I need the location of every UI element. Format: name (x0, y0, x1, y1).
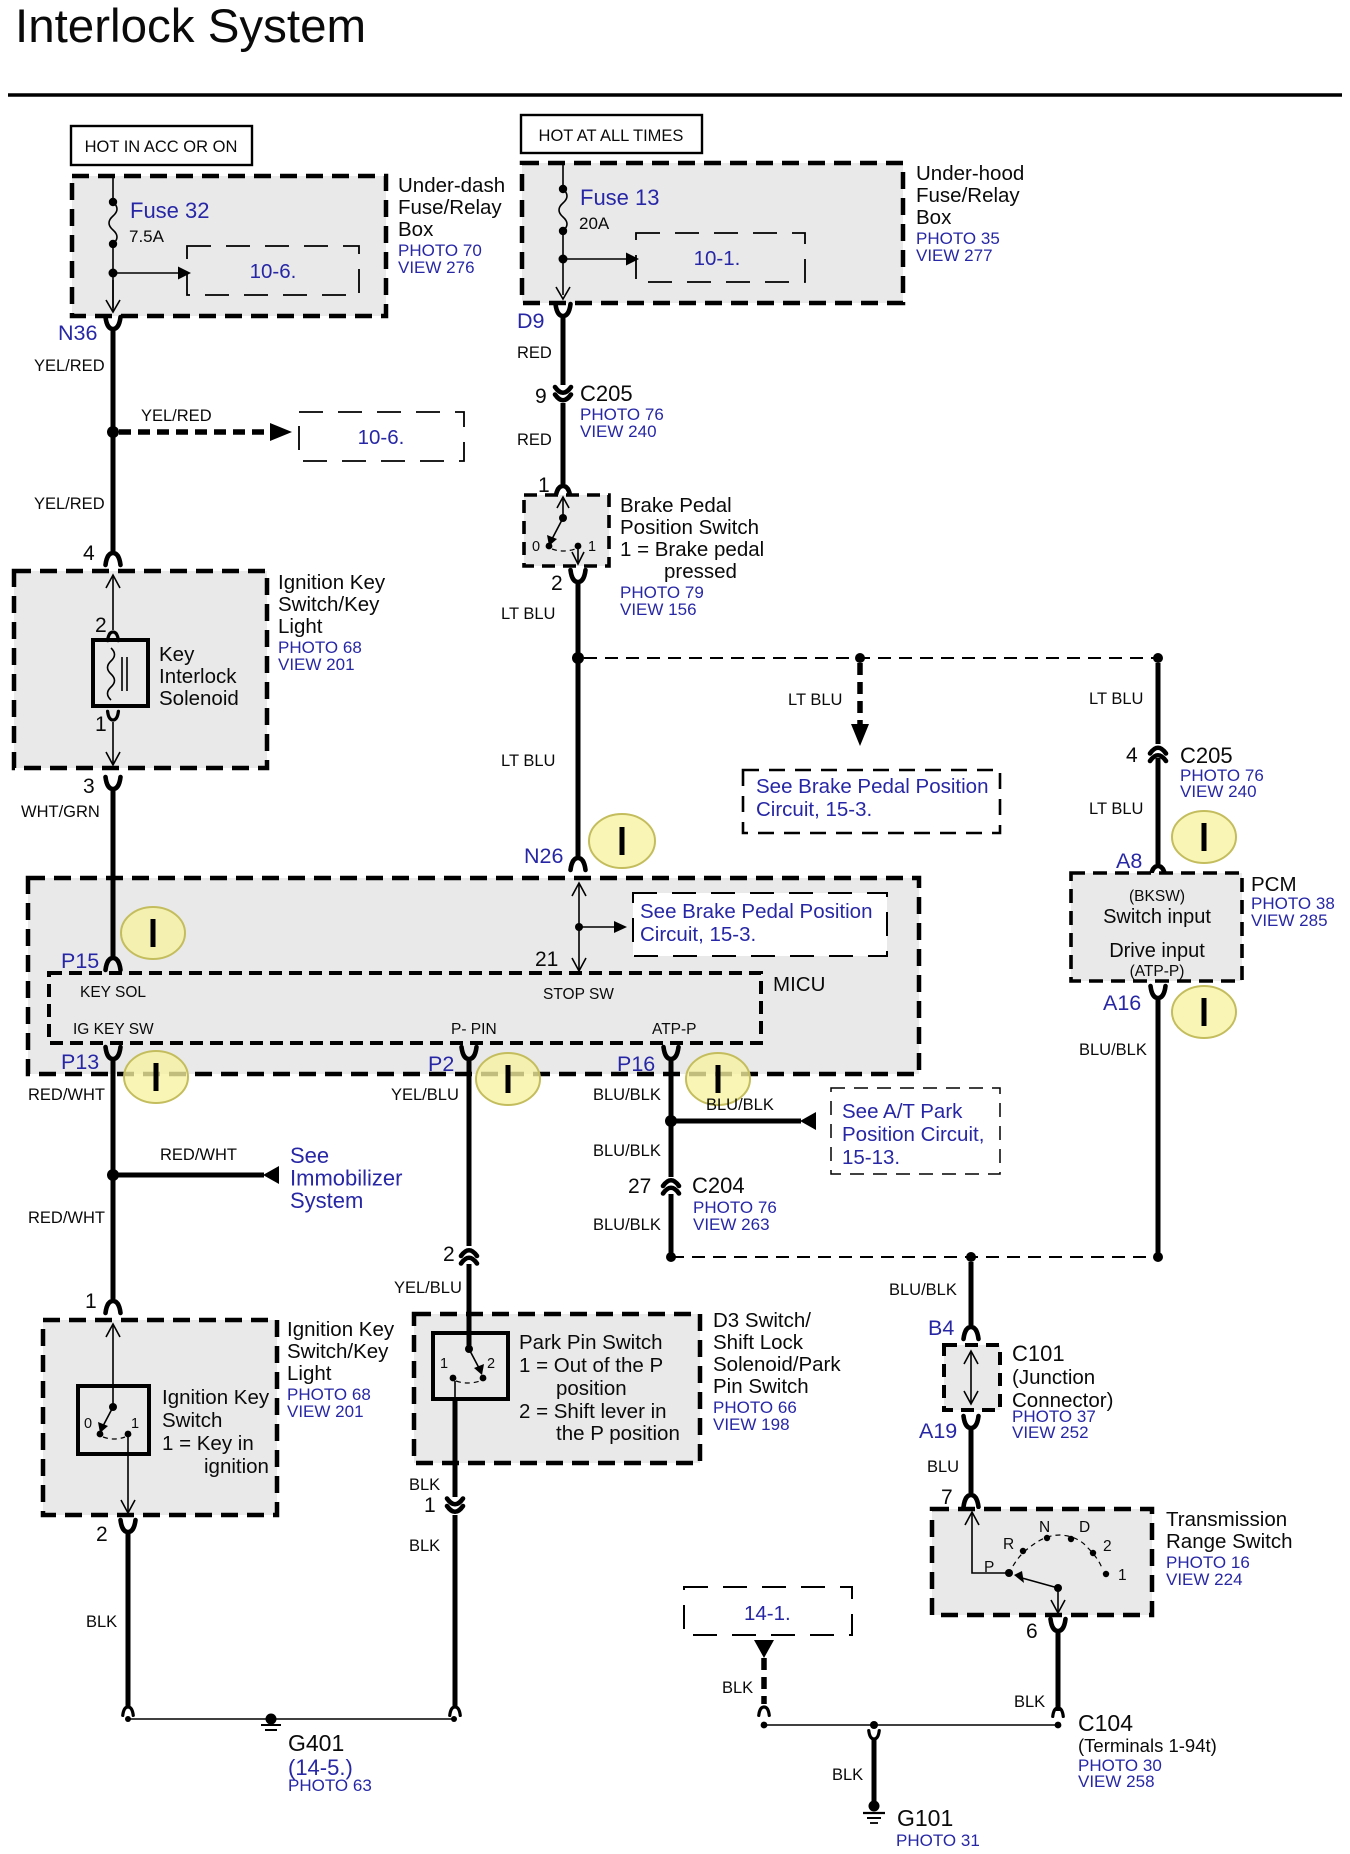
svg-text:1: 1 (588, 539, 596, 555)
svg-text:3: 3 (83, 775, 95, 798)
svg-text:IG KEY SW: IG KEY SW (73, 1021, 154, 1038)
svg-text:Key: Key (159, 643, 195, 666)
highlight oval at A8 (1172, 811, 1236, 863)
svg-text:RED/WHT: RED/WHT (160, 1146, 237, 1164)
junction to immobilizer (107, 1169, 119, 1181)
svg-text:STOP SW: STOP SW (543, 986, 614, 1003)
svg-text:RED/WHT: RED/WHT (28, 1086, 105, 1104)
TRS entry arrow and feed to P (972, 1513, 1009, 1573)
svg-text:Fuse/Relay: Fuse/Relay (398, 196, 502, 219)
wire to immobilizer system (118, 1173, 264, 1178)
svg-text:LT BLU: LT BLU (501, 752, 555, 770)
svg-text:2: 2 (551, 572, 563, 595)
svg-text:Interlock: Interlock (159, 665, 237, 688)
in-line connector C205 pin 9 (double chevron down) (555, 387, 571, 393)
connector fork at N36 (106, 317, 121, 329)
under-dash fuse/relay box (dashed enclosure) (72, 176, 386, 316)
park switch common node (465, 1345, 473, 1353)
svg-text:N26: N26 (524, 844, 563, 868)
svg-text:Light: Light (287, 1362, 332, 1385)
PCM enclosure (1071, 873, 1242, 981)
reference box 10-6 (inside fuse box) (187, 246, 359, 295)
svg-text:Under-dash: Under-dash (398, 174, 505, 197)
pin 4 entry arrow inside box (112, 576, 114, 630)
svg-text:P15: P15 (61, 949, 99, 973)
TRS contacts P R N D 2 1 (1005, 1569, 1013, 1577)
wire pin1 down with arrow (112, 722, 114, 764)
svg-text:9: 9 (535, 385, 547, 408)
wire end fork at C104 bus (1053, 1708, 1064, 1716)
label: D3 Switch/Shift Lock Solenoid/Park Pin Switch (713, 1309, 841, 1434)
svg-text:Switch input: Switch input (1103, 906, 1211, 928)
svg-text:Transmission: Transmission (1166, 1508, 1287, 1531)
svg-text:Ignition Key: Ignition Key (278, 571, 386, 594)
svg-text:VIEW 258: VIEW 258 (1078, 1772, 1155, 1791)
connector fork pin 1 (556, 486, 571, 498)
svg-text:Box: Box (916, 206, 952, 229)
svg-text:Switch: Switch (162, 1409, 222, 1432)
label: Ignition Key Switch/Key Light (lower) (287, 1318, 395, 1421)
svg-text:See Brake Pedal Position: See Brake Pedal Position (756, 775, 988, 798)
junction on pin21 wire (575, 923, 583, 931)
svg-text:P13: P13 (61, 1050, 99, 1074)
fuse F32 element (squiggle) (109, 202, 117, 244)
svg-text:BLU/BLK: BLU/BLK (1079, 1041, 1147, 1059)
svg-text:MICU: MICU (773, 973, 825, 996)
label: Park Pin Switch block (519, 1331, 680, 1445)
svg-text:VIEW 240: VIEW 240 (1180, 782, 1257, 801)
connector fork pin 1 (106, 1301, 121, 1313)
dashed net line to right (584, 657, 1158, 659)
svg-text:4: 4 (83, 542, 95, 565)
wire to C101 (969, 1262, 974, 1325)
svg-text:10-6.: 10-6. (358, 426, 405, 449)
svg-text:C104: C104 (1078, 1710, 1133, 1736)
svg-text:P- PIN: P- PIN (451, 1021, 497, 1038)
label: See Immobilizer System (290, 1143, 402, 1213)
highlight oval at P15 (121, 907, 185, 959)
svg-text:HOT IN ACC OR ON: HOT IN ACC OR ON (85, 138, 238, 156)
svg-text:1 = Key in: 1 = Key in (162, 1432, 254, 1455)
svg-text:Fuse/Relay: Fuse/Relay (916, 184, 1020, 207)
label C205 / PHOTO 76 / VIEW 240 (right) (1180, 743, 1264, 801)
in-line connector C205 (double chevron up) (1150, 748, 1166, 754)
C104 bus wire (764, 1724, 1058, 1726)
arrow to 10-1 reference (563, 258, 626, 260)
fuse F13 element (squiggle) (559, 189, 567, 231)
connector fork pin 2 (571, 570, 586, 582)
contact 2 (480, 1375, 487, 1382)
TRS wiper lever with arrow to P (1054, 1584, 1062, 1592)
svg-text:C205: C205 (580, 381, 633, 406)
svg-text:1: 1 (85, 1290, 97, 1313)
svg-text:RED/WHT: RED/WHT (28, 1209, 105, 1227)
wire BLK down to G101 (872, 1738, 877, 1801)
wire WHT/GRN inside MICU box (111, 879, 116, 958)
svg-text:7: 7 (941, 1486, 953, 1509)
wire BLU/BLK from A16 down (1156, 999, 1161, 1253)
svg-text:VIEW 276: VIEW 276 (398, 258, 475, 277)
svg-text:A19: A19 (919, 1419, 957, 1443)
switch lever to contact 0 (103, 1407, 113, 1426)
svg-text:1: 1 (440, 1356, 448, 1372)
connector fork P2 (462, 1047, 477, 1059)
highlight oval at N26 (589, 814, 655, 868)
wire YEL/RED vertical (111, 329, 116, 553)
junction node YEL/RED branch (107, 426, 119, 438)
svg-text:D: D (1079, 1519, 1090, 1536)
highlight oval at P13 (124, 1051, 188, 1103)
svg-text:LT BLU: LT BLU (1089, 800, 1143, 818)
svg-text:LT BLU: LT BLU (788, 691, 842, 709)
title underline rule (8, 93, 1342, 97)
wire to see A/T park position (676, 1119, 801, 1124)
connector fork pin 6 (1051, 1619, 1066, 1631)
connector fork P15 (106, 958, 121, 970)
svg-text:D9: D9 (517, 309, 544, 333)
node: fuse 32 bottom terminal (109, 240, 117, 248)
right column: wire LT BLU from brake net (1156, 663, 1161, 744)
svg-text:Fuse 32: Fuse 32 (130, 198, 210, 223)
entry arrow inside (112, 1325, 114, 1407)
svg-text:System: System (290, 1188, 363, 1213)
highlight oval at A16 (1172, 986, 1236, 1038)
svg-text:1 = Out of the P: 1 = Out of the P (519, 1354, 663, 1377)
svg-text:P16: P16 (617, 1052, 655, 1076)
in-line connector (double chevron down) (447, 1499, 463, 1505)
wire BLK to ground bus (453, 1515, 458, 1707)
svg-text:Brake Pedal: Brake Pedal (620, 494, 732, 517)
svg-text:BLK: BLK (1014, 1693, 1045, 1711)
svg-text:Position Circuit,: Position Circuit, (842, 1123, 984, 1146)
svg-text:See Brake Pedal Position: See Brake Pedal Position (640, 900, 872, 923)
label C104 (Terminals 1-94t) (1078, 1710, 1217, 1791)
svg-text:C204: C204 (692, 1173, 745, 1198)
svg-text:Park Pin Switch: Park Pin Switch (519, 1331, 663, 1354)
MICU under-dash fuse/relay outer box (28, 878, 919, 1074)
svg-text:RED: RED (517, 344, 552, 362)
node on dashed net (855, 653, 865, 663)
svg-text:Immobilizer: Immobilizer (290, 1166, 402, 1191)
ignition key switch enclosure (lower) (43, 1320, 277, 1515)
label C101 (Junction Connector) (1012, 1341, 1113, 1442)
svg-text:(Terminals 1-94t): (Terminals 1-94t) (1078, 1735, 1217, 1756)
svg-text:2: 2 (95, 614, 107, 637)
brake pedal position switch enclosure (524, 495, 609, 566)
svg-text:ATP-P: ATP-P (652, 1021, 697, 1038)
svg-text:BLK: BLK (409, 1476, 440, 1494)
contact 0 (546, 543, 553, 550)
connector fork N26 (571, 858, 586, 870)
connector fork pin 7 (964, 1495, 979, 1507)
wire end fork at ground bus (450, 1707, 461, 1715)
label G401 / (14-5.) / PHOTO 63 (288, 1730, 372, 1795)
arrowhead leaving box bottom (pin N36) (106, 300, 120, 312)
svg-text:1: 1 (131, 1416, 139, 1432)
svg-text:27: 27 (628, 1175, 651, 1198)
connector fork at D9 (556, 304, 571, 316)
svg-text:A8: A8 (1116, 849, 1142, 873)
wire BLK below park switch (453, 1399, 458, 1497)
svg-text:YEL/RED: YEL/RED (34, 495, 105, 513)
wire end fork at ground bus (123, 1707, 134, 1715)
svg-text:Switch/Key: Switch/Key (287, 1340, 389, 1363)
connector fork B4 (964, 1327, 979, 1339)
svg-text:(BKSW): (BKSW) (1129, 888, 1185, 905)
connector fork A8 (1151, 866, 1166, 878)
highlight oval at P16 (686, 1053, 750, 1105)
ground G101 symbol (869, 1801, 880, 1812)
svg-text:20A: 20A (579, 214, 610, 233)
label C204 / PHOTO 76 / VIEW 263 (692, 1173, 777, 1234)
svg-text:BLK: BLK (409, 1537, 440, 1555)
TRS dashed selector arc (1013, 1535, 1102, 1568)
wire BLK down to ground (126, 1533, 131, 1707)
ground bus wire G401 (128, 1718, 454, 1720)
svg-text:1: 1 (424, 1494, 436, 1517)
brake switch: entry arrow (562, 499, 564, 518)
svg-text:YEL/RED: YEL/RED (34, 357, 105, 375)
svg-text:BLU/BLK: BLU/BLK (706, 1096, 774, 1114)
svg-text:N36: N36 (58, 321, 97, 345)
svg-text:N: N (1039, 1519, 1050, 1536)
svg-text:VIEW 263: VIEW 263 (693, 1215, 770, 1234)
park switch lever to contact 2 (469, 1349, 479, 1368)
brake switch lever to contact 0 (552, 518, 563, 539)
wire BLU down (969, 1428, 974, 1493)
node to G101 (870, 1721, 878, 1729)
wire: fuse 13 output down (562, 231, 564, 295)
svg-text:VIEW 277: VIEW 277 (916, 246, 993, 265)
contact 0 (97, 1431, 104, 1438)
svg-text:1: 1 (1118, 1567, 1127, 1584)
reference box: See Brake Pedal Position Circuit 15-3 (right) (743, 770, 1000, 833)
svg-text:RED: RED (517, 431, 552, 449)
junction to A/T park position (665, 1115, 677, 1127)
svg-text:4: 4 (1126, 744, 1138, 767)
svg-text:VIEW 285: VIEW 285 (1251, 911, 1328, 930)
svg-text:2 = Shift lever in: 2 = Shift lever in (519, 1400, 667, 1423)
svg-text:VIEW 240: VIEW 240 (580, 422, 657, 441)
ignition key switch/key light enclosure (solenoid) (14, 571, 267, 768)
svg-text:10-6.: 10-6. (250, 260, 297, 283)
wire LT BLU to MICU (576, 663, 581, 857)
svg-text:C101: C101 (1012, 1341, 1065, 1366)
wire RED to brake switch (561, 403, 566, 484)
junction node to 10-6 arrow (109, 269, 118, 278)
solenoid core bars (121, 657, 123, 691)
D3/shift lock/park pin switch enclosure (414, 1314, 700, 1463)
svg-text:7.5A: 7.5A (129, 227, 165, 246)
label PCM / PHOTO 38 / VIEW 285 (1251, 873, 1335, 930)
key interlock solenoid body (93, 640, 148, 706)
svg-text:P2: P2 (428, 1052, 454, 1076)
TRS output wire w/ arrow (1057, 1588, 1059, 1612)
svg-text:YEL/BLU: YEL/BLU (394, 1279, 462, 1297)
switch output wire w/ arrow (127, 1434, 129, 1512)
svg-text:6: 6 (1026, 1620, 1038, 1643)
svg-text:2: 2 (96, 1523, 108, 1546)
HOT IN ACC OR ON header box (71, 126, 252, 165)
in-line connector (double chevron up) (461, 1250, 477, 1256)
connector fork A19 (964, 1416, 979, 1428)
svg-text:PHOTO 31: PHOTO 31 (896, 1831, 980, 1850)
svg-text:10-1.: 10-1. (694, 247, 741, 270)
fork below bus for G101 drop (869, 1731, 880, 1739)
reference box: See Brake Pedal Position Circuit (inside MICU) (633, 893, 887, 956)
svg-text:Interlock System: Interlock System (15, 0, 366, 53)
svg-text:pressed: pressed (664, 560, 737, 583)
svg-text:PHOTO 63: PHOTO 63 (288, 1776, 372, 1795)
svg-text:Fuse 13: Fuse 13 (580, 185, 660, 210)
node: fuse 13 bottom terminal (559, 227, 567, 235)
svg-text:BLU/BLK: BLU/BLK (889, 1281, 957, 1299)
wire LT BLU down (576, 583, 581, 658)
svg-text:R: R (1003, 1536, 1014, 1553)
svg-text:HOT AT ALL TIMES: HOT AT ALL TIMES (539, 127, 684, 145)
svg-text:G401: G401 (288, 1730, 344, 1756)
dashed net line lower (671, 1256, 1158, 1258)
svg-text:BLU: BLU (927, 1458, 959, 1476)
svg-text:Switch/Key: Switch/Key (278, 593, 380, 616)
svg-text:Pin Switch: Pin Switch (713, 1375, 809, 1398)
svg-text:BLK: BLK (722, 1679, 753, 1697)
label: Transmission Range Switch (1166, 1508, 1292, 1589)
svg-text:A16: A16 (1103, 991, 1141, 1015)
contact 1 (575, 543, 582, 550)
svg-text:Solenoid/Park: Solenoid/Park (713, 1353, 841, 1376)
internal wire pin 21 with arrows (578, 884, 580, 970)
svg-text:VIEW 252: VIEW 252 (1012, 1423, 1089, 1442)
svg-text:Drive input: Drive input (1109, 940, 1205, 962)
reference box 10-1 (636, 233, 805, 282)
svg-text:Under-hood: Under-hood (916, 162, 1024, 185)
dashed wire BLK from 14-1 (761, 1658, 767, 1704)
svg-text:ignition: ignition (204, 1455, 269, 1478)
svg-text:YEL/BLU: YEL/BLU (391, 1086, 459, 1104)
connector fork pin 3 (106, 777, 121, 789)
contact 1 (450, 1375, 457, 1382)
svg-text:Shift Lock: Shift Lock (713, 1331, 804, 1354)
svg-text:P: P (984, 1559, 994, 1576)
svg-text:WHT/GRN: WHT/GRN (21, 803, 100, 821)
brake switch output w/ arrow (577, 546, 579, 562)
transmission range switch enclosure (932, 1509, 1152, 1615)
connector fork solenoid pin 2 (108, 632, 119, 641)
wire: fuse 32 feed inside box (112, 178, 114, 202)
svg-text:2: 2 (487, 1356, 495, 1372)
under-hood fuse/relay box (dashed enclosure) (522, 163, 903, 303)
svg-text:Position Switch: Position Switch (620, 516, 759, 539)
junction node to 10-1 arrow (559, 255, 568, 264)
dashed throw arc (552, 549, 575, 551)
svg-text:See: See (290, 1143, 329, 1168)
svg-text:D3 Switch/: D3 Switch/ (713, 1309, 811, 1332)
wire BLK from TRS down (1056, 1631, 1061, 1711)
wire LT BLU to PCM (1156, 758, 1161, 864)
arrowhead leaving box bottom (pin D9) (556, 287, 570, 299)
C101 junction connector box (944, 1345, 1000, 1410)
svg-text:BLU/BLK: BLU/BLK (593, 1216, 661, 1234)
svg-text:See A/T Park: See A/T Park (842, 1100, 963, 1123)
wire: fuse 13 feed (562, 165, 564, 189)
junction node brake signal (572, 652, 584, 664)
connector fork P16 (664, 1047, 679, 1059)
svg-text:BLK: BLK (86, 1613, 117, 1631)
svg-text:G101: G101 (897, 1805, 953, 1831)
svg-text:1: 1 (95, 713, 107, 736)
wire: fuse 32 output down (112, 244, 114, 308)
svg-text:Ignition Key: Ignition Key (162, 1386, 270, 1409)
HOT AT ALL TIMES header box (521, 115, 702, 153)
solenoid coil (108, 648, 115, 700)
wire YEL/BLU into park pin switch (467, 1264, 472, 1335)
svg-text:Box: Box (398, 218, 434, 241)
svg-text:Circuit, 15-3.: Circuit, 15-3. (640, 923, 756, 946)
ground G401 symbol (266, 1714, 277, 1725)
connector fork A16 (1151, 986, 1166, 998)
in-line connector C204 (double chevron up) (663, 1180, 679, 1186)
svg-text:BLK: BLK (832, 1766, 863, 1784)
wire segment into park switch (467, 1315, 472, 1349)
svg-text:2: 2 (1103, 1538, 1112, 1555)
svg-text:VIEW 201: VIEW 201 (278, 655, 355, 674)
svg-text:KEY SOL: KEY SOL (80, 984, 146, 1001)
connector fork P13 (106, 1047, 121, 1059)
svg-text:LT BLU: LT BLU (1089, 690, 1143, 708)
label: Brake Pedal Position Switch (620, 494, 764, 619)
wire BLU/BLK from P16 down (669, 1060, 674, 1177)
svg-text:Circuit, 15-3.: Circuit, 15-3. (756, 798, 872, 821)
svg-text:1 = Brake pedal: 1 = Brake pedal (620, 538, 764, 561)
connector fork pin 2 (121, 1520, 136, 1532)
svg-text:VIEW 198: VIEW 198 (713, 1415, 790, 1434)
dashed throw arc (103, 1437, 125, 1439)
reference box 14-1 (684, 1587, 852, 1635)
label G101 / PHOTO 31 (896, 1805, 980, 1850)
dashed drop wire with arrow (857, 663, 863, 724)
svg-text:0: 0 (532, 539, 540, 555)
svg-text:Ignition Key: Ignition Key (287, 1318, 395, 1341)
svg-text:C205: C205 (1180, 743, 1233, 768)
svg-text:0: 0 (84, 1416, 92, 1432)
node: fuse 13 top terminal (559, 185, 567, 193)
ignition key switch inner box (78, 1386, 149, 1454)
nodes on lower dashed net (666, 1252, 676, 1262)
dashed throw arc (456, 1381, 480, 1383)
PCM internal labels (1103, 888, 1211, 980)
svg-text:B4: B4 (928, 1316, 954, 1340)
svg-text:21: 21 (535, 948, 558, 971)
svg-text:2: 2 (443, 1243, 455, 1266)
park switch output wire (454, 1381, 456, 1399)
svg-text:VIEW 224: VIEW 224 (1166, 1570, 1243, 1589)
svg-text:Range Switch: Range Switch (1166, 1530, 1292, 1553)
contact 1 (125, 1431, 132, 1438)
park pin switch inner box (433, 1333, 508, 1399)
brake switch common node (559, 514, 567, 522)
dashed branch wire to 10-6 (119, 429, 270, 435)
svg-text:YEL/RED: YEL/RED (141, 407, 212, 425)
connector fork pin 4 (106, 553, 121, 565)
svg-text:position: position (556, 1377, 627, 1400)
svg-text:(Junction: (Junction (1012, 1366, 1095, 1389)
highlight oval at P2 (476, 1053, 540, 1105)
label: Ignition Key Switch / 1 = Key in ignition (162, 1386, 270, 1478)
wire WHT/GRN down to MICU (111, 789, 116, 958)
arrow from 14-1 (754, 1640, 774, 1658)
label: Key Interlock Solenoid (159, 643, 239, 710)
